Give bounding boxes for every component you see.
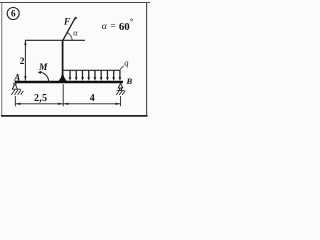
svg-text:°: ° [130,17,133,26]
dimension extension line right [120,96,122,106]
distributed load top line [63,69,120,71]
beam [15,81,123,84]
border frame right [146,3,148,117]
support B triangle [118,83,123,88]
dimension extension line left [14,96,16,106]
dimension arrow right of middle [63,103,68,105]
top reference line [25,39,85,41]
dimension extension line middle [62,84,64,106]
svg-text:B: B [126,76,133,86]
dimension arrow at right end [115,103,120,105]
dimension arrow left of middle [58,103,63,105]
svg-text:4: 4 [90,93,95,104]
dimension 2 top arrow [24,41,26,46]
force F arrowhead [73,16,77,20]
column (vertical member) [62,40,64,83]
border frame bottom [1,115,148,117]
svg-text:=: = [110,21,115,31]
problem number circle [7,8,19,20]
border frame top [0,2,150,4]
support B roller circle [119,88,121,90]
support B hatching [116,91,125,95]
distributed load arrows [69,70,122,81]
support A triangle legs [13,85,18,89]
svg-text:q: q [124,57,129,67]
column-beam fillet [58,74,67,81]
support A pin circle [14,83,16,85]
moment M arrowhead [38,71,42,74]
dimension 2 bottom arrow [24,76,26,81]
moment M arc [39,72,48,82]
dimension arrow at left end [16,103,21,105]
support B ground line [117,89,125,91]
bottom dimension line [15,103,120,105]
force F line [63,18,75,41]
border frame left [1,3,3,117]
svg-text:60: 60 [119,21,130,33]
svg-text:2,5: 2,5 [34,93,47,104]
svg-text:6: 6 [11,10,16,20]
dimension 2 vertical line [24,41,26,81]
support A hatching [11,90,23,95]
support A ground line [12,88,21,90]
svg-text:2: 2 [20,57,25,67]
svg-text:M: M [38,63,48,73]
angle alpha arc [67,32,73,40]
svg-text:F: F [63,17,70,27]
svg-text:A: A [13,73,20,83]
background [0,0,150,120]
q leader line [120,66,124,70]
